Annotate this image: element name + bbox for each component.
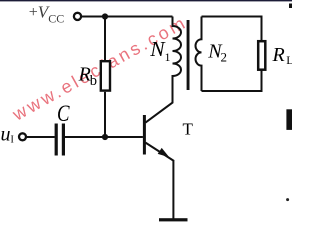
- svg-text:1: 1: [165, 50, 171, 64]
- transistor collector lead: [146, 76, 173, 123]
- svg-text:+: +: [29, 4, 38, 21]
- svg-text:CC: CC: [48, 12, 64, 26]
- wire Vcc to Rb: [104, 17, 106, 62]
- svg-text:T: T: [183, 120, 194, 139]
- transistor emitter lead: [146, 143, 175, 161]
- right edge stray dot: [286, 198, 289, 201]
- node base junction: [102, 134, 108, 140]
- inductor N2 secondary winding: [196, 17, 202, 92]
- terminal +Vcc: [74, 13, 81, 20]
- emitter arrow: [158, 148, 170, 157]
- wire emitter down: [172, 161, 174, 220]
- svg-text:u: u: [1, 124, 11, 146]
- svg-text:I: I: [11, 135, 14, 146]
- right edge partial component bar: [286, 109, 292, 130]
- inductor N1 primary winding: [173, 17, 182, 103]
- node junction top: [102, 13, 108, 19]
- transistor T base bar: [143, 115, 146, 155]
- watermark www.elecfans.com: [8, 12, 190, 125]
- svg-text:b: b: [90, 73, 97, 89]
- wire Rb to base node: [104, 92, 106, 137]
- top border line: [0, 0, 292, 1]
- top-right corner blob: [289, 4, 292, 9]
- secondary loop wires: [202, 17, 262, 92]
- capacitor C: [55, 124, 65, 156]
- svg-text:2: 2: [221, 50, 228, 65]
- svg-text:C: C: [57, 101, 70, 126]
- label N1: [149, 37, 170, 64]
- input terminal u1: [19, 133, 26, 140]
- label RL: [272, 44, 294, 67]
- resistor Rb: [101, 61, 110, 90]
- transformer core bar: [187, 20, 190, 90]
- wire C to base: [65, 136, 143, 138]
- wire top horizontal: [81, 16, 173, 18]
- label +VCC: [29, 3, 65, 26]
- wire input to C: [26, 136, 55, 138]
- label u1: [1, 124, 14, 146]
- label N2: [207, 40, 227, 64]
- resistor RL: [258, 41, 265, 69]
- svg-text:R: R: [272, 44, 285, 66]
- label Rb: [78, 64, 97, 89]
- ground: [159, 218, 188, 221]
- svg-text:L: L: [286, 53, 292, 67]
